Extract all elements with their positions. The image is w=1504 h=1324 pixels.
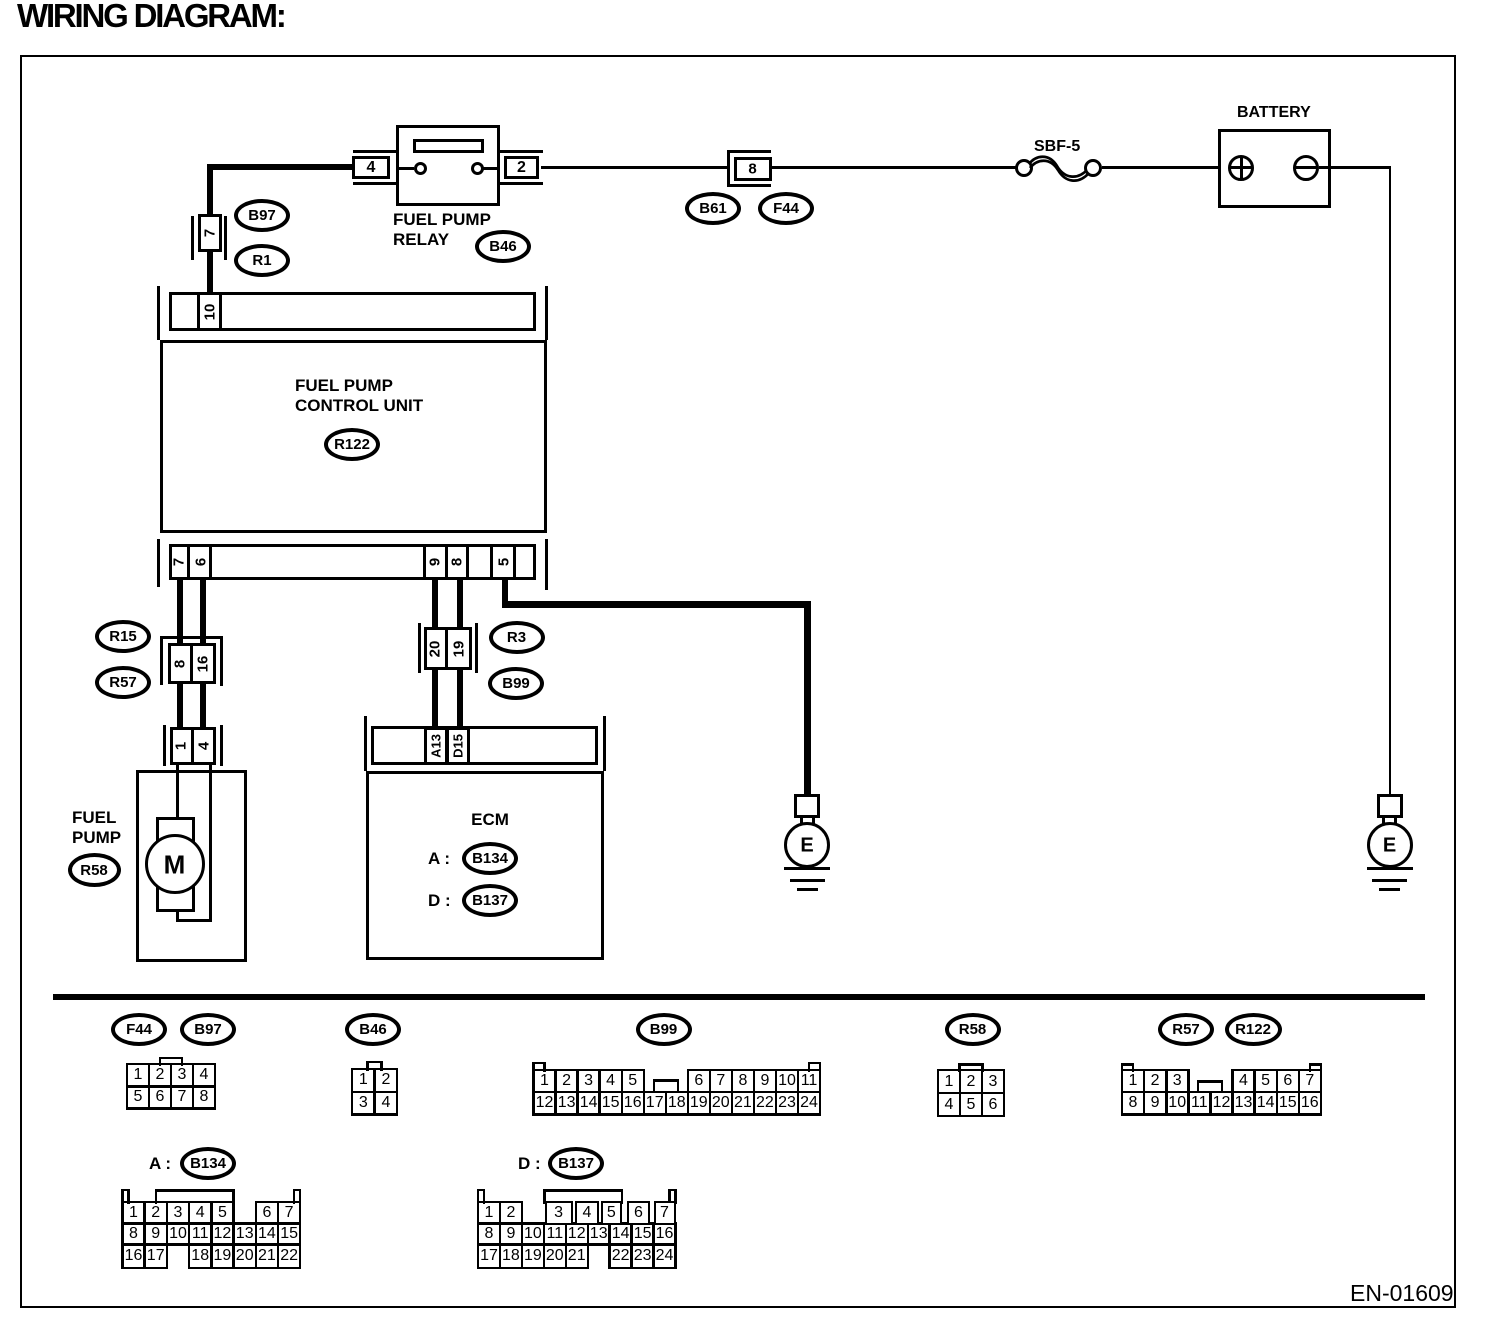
B134 pin 15 (280, 1225, 298, 1243)
connector view B99 left notch (532, 1062, 546, 1065)
B134 pin 4 (196, 1204, 205, 1222)
label D : (428, 891, 451, 911)
B137 pin 8 (485, 1225, 494, 1243)
B99 pin 19 (690, 1094, 708, 1112)
motor letter M (164, 849, 186, 880)
wire: R15/R57 pin 16 to fuel pump pin 4 (thick) (200, 684, 206, 728)
connector view R57/R122 left notch (1121, 1063, 1135, 1066)
ellipse B97 (bottom) (180, 1013, 236, 1046)
R58 pin 3 (989, 1073, 998, 1091)
ellipse B46 (bottom) (345, 1013, 401, 1046)
connector view R58 tab (958, 1063, 984, 1066)
B137 pin 3 box (545, 1201, 573, 1225)
pin label 7 (control unit) (171, 558, 188, 566)
B137 pin 2 (506, 1204, 515, 1222)
ellipse R122 (324, 428, 380, 461)
B46 pin 4 (381, 1094, 390, 1112)
B137 pin 14 (612, 1225, 630, 1243)
connector R15/R57 pin box 8/16 (168, 643, 216, 684)
ellipse B99 (bottom) (636, 1013, 692, 1046)
pin label 19 (R3/B99) (450, 640, 467, 657)
R57/R122 pin 2 (1151, 1072, 1160, 1090)
footer code EN-01609 (1350, 1280, 1454, 1307)
ground E bars (1367, 867, 1413, 870)
B134 pin 7 (285, 1204, 294, 1222)
fuel pump control unit bottom connector shell (157, 539, 160, 587)
R57/R122 pin 1 (1129, 1072, 1138, 1090)
B137 pin 23 (634, 1247, 652, 1265)
fuse SBF-5 right terminal circle (1084, 159, 1102, 177)
R57/R122 pin 13 (1235, 1094, 1253, 1112)
ellipse R58 (bottom) (945, 1013, 1001, 1046)
B99 pin 9 (760, 1072, 769, 1090)
ECM top connector row (371, 726, 598, 765)
R57/R122 pin 11 (1191, 1094, 1208, 1112)
B134 pin 13 (236, 1225, 254, 1243)
battery negative terminal (1293, 155, 1319, 181)
pin label 7 (201, 229, 218, 237)
bottom row cell dividers (187, 544, 190, 580)
B137 pin 4 box (575, 1201, 599, 1225)
ECM body (366, 771, 604, 960)
pin label 4 (367, 159, 376, 177)
fuel pump relay body B46 (396, 125, 500, 206)
pin label 5 (control unit) (495, 558, 512, 566)
fuel pump connector pin box 1/4 (170, 727, 216, 765)
ground E circle (1367, 822, 1413, 868)
B99 pin 8 (738, 1072, 747, 1090)
battery positive terminal (1228, 155, 1254, 181)
connector R15/R57 shell (160, 636, 223, 639)
fuse SBF-5 element (S-curve) (1020, 145, 1100, 195)
ellipse F44 (bottom) (111, 1013, 167, 1046)
fuel pump internal wire from pin 1 to motor brush (176, 765, 179, 819)
ellipse B137 (diagram) (462, 884, 518, 917)
B99 pin 4 (606, 1072, 615, 1090)
B134 pin 11 (192, 1225, 209, 1243)
relay connector pin 2 box (504, 156, 539, 179)
B137 pin 9 (506, 1225, 515, 1243)
ECM pin A13 box (424, 727, 448, 765)
B99 pin 16 (624, 1094, 642, 1112)
B99 pin 18 (668, 1094, 686, 1112)
connector view B99 right notch (808, 1062, 822, 1065)
B134 pin 17 (147, 1247, 165, 1265)
wire: control unit pin 9 to connector R3/B99 pin 20 (thick) (432, 577, 438, 630)
fuel pump brush rectangle (156, 817, 195, 912)
pin label D15 (451, 734, 466, 758)
B99 pin 22 (756, 1094, 774, 1112)
B99 pin 10 (778, 1072, 796, 1090)
B137 pin 18 (502, 1247, 520, 1265)
fuel pump control unit body R122 (160, 340, 547, 533)
fuel pump control unit bottom connector row (169, 544, 536, 580)
ellipse B61 (685, 192, 741, 225)
B99 pin 3 (584, 1072, 593, 1090)
title: WIRING DIAGRAM: (17, 0, 285, 35)
connector view B134 left notch (121, 1189, 130, 1192)
B137 pin 1 (485, 1204, 494, 1222)
relay contact circle left (414, 162, 427, 175)
label FUEL PUMP CONTROL UNIT (295, 376, 393, 396)
B137 pin 21 (568, 1247, 586, 1265)
B134 pin 10 (169, 1225, 187, 1243)
B134 pin 19 (213, 1247, 231, 1265)
ellipse F44 (758, 192, 814, 225)
ellipse R122 (bottom) (1225, 1013, 1282, 1046)
B134 pin 14 (258, 1225, 276, 1243)
ground E square terminal (794, 794, 820, 818)
B134 pin 9 (151, 1225, 160, 1243)
ellipse R15 (95, 620, 151, 653)
ellipse B134 (bottom) (180, 1147, 236, 1180)
F44/B97 pin 3 (178, 1066, 187, 1084)
connector pin 7 (R1/B97) shell (191, 216, 194, 260)
wire: fuse SBF-5 to battery positive terminal (thin) (1102, 166, 1228, 169)
B137 pin 5 (607, 1204, 616, 1222)
ellipse B99 (diagram) (488, 667, 544, 700)
R57/R122 pin 5 (1261, 1072, 1270, 1090)
B99 pin 23 (778, 1094, 796, 1112)
R58 pin 5 (967, 1096, 976, 1114)
B46 pin grid (351, 1068, 376, 1071)
F44/B97 pin 1 (134, 1066, 143, 1084)
B137 pin 6 (634, 1204, 643, 1222)
B134 pin grid (121, 1201, 146, 1204)
B134 pin 12 (213, 1225, 231, 1243)
F44/B97 pin 4 (200, 1066, 209, 1084)
connector view R57/R122 right notch (1309, 1063, 1323, 1066)
B134 pin 2 (151, 1204, 160, 1222)
fuel pump control unit top connector row (169, 292, 536, 331)
pin label 8 (748, 160, 756, 177)
B137 pin 5 box (601, 1201, 623, 1225)
B134 pin 18 (191, 1247, 209, 1265)
B99 pin 5 (628, 1072, 637, 1090)
B137 pin 20 (546, 1247, 564, 1265)
fuel pump control unit top connector shell (157, 286, 160, 340)
B134 pin 16 (125, 1247, 143, 1265)
connector view R57/R122 middle tab (1197, 1080, 1224, 1083)
pin 10 cell dividers (197, 292, 200, 331)
B137 pin 12 (568, 1225, 586, 1243)
ground E bars (784, 867, 830, 870)
R58 pin 4 (945, 1096, 954, 1114)
B134 pin 1 (129, 1204, 138, 1222)
B137 pin 19 (524, 1247, 542, 1265)
wire: control unit pin 7 to connector R15/R57 pin 8 (thick) (177, 577, 183, 644)
pin label 2 (517, 159, 526, 177)
B46 pin 1 (359, 1071, 368, 1089)
wire: relay pin 2 to in-line connector 8 (thin) (541, 166, 727, 169)
R57/R122 pin 10 (1168, 1094, 1186, 1112)
ellipse R57 (95, 666, 151, 699)
relay connector pin 2 shell (500, 150, 543, 153)
ground E letter (800, 834, 813, 857)
connector view B137 left notch (477, 1189, 486, 1192)
ECM top connector shell (364, 716, 367, 771)
pin label 8 (R15/R57) (171, 659, 188, 667)
R58 pin 1 (945, 1073, 954, 1091)
relay connector pin 4 shell (353, 150, 396, 153)
ground E circle (784, 822, 830, 868)
B134 pin 22 (280, 1247, 298, 1265)
B137 pin 24 (656, 1247, 674, 1265)
B99 pin 2 (562, 1072, 571, 1090)
ellipse R1 (234, 244, 290, 277)
F44/B97 pin 5 (134, 1088, 143, 1106)
B137 pin 15 (634, 1225, 652, 1243)
B99 pin 21 (734, 1094, 752, 1112)
fuel pump internal wire from pin 4 around motor (209, 765, 212, 922)
B99 pin 7 (716, 1072, 725, 1090)
R57/R122 pin 9 (1151, 1094, 1160, 1112)
R57/R122 pin 16 (1301, 1094, 1319, 1112)
wire: battery negative to ground E (thin) (1319, 166, 1390, 169)
R57/R122 pin 14 (1257, 1094, 1275, 1112)
B134 pin 21 (258, 1247, 276, 1265)
pin label A13 (429, 734, 444, 758)
pin label 16 (R15/R57) (195, 655, 212, 672)
fuel pump body R58 (136, 770, 247, 962)
connector view B137 right notch (668, 1189, 677, 1192)
wire: relay pin 4 to connector R1/B97 pin 7 (thick, horizontal+vertical) (207, 164, 353, 170)
relay connector pin 4 box (352, 156, 390, 179)
B137 pin 7 box (654, 1201, 676, 1225)
R57/R122 pin 15 (1279, 1094, 1297, 1112)
R57/R122 pin 12 (1213, 1094, 1231, 1112)
ground E letter (1383, 834, 1396, 857)
B137 pin 6 box (627, 1201, 650, 1225)
label FUEL PUMP (left) (72, 808, 116, 828)
wire: R15/R57 pin 8 to fuel pump pin 1 (thick) (177, 684, 183, 728)
B134 pin 8 (129, 1225, 138, 1243)
ellipse R57 (bottom) (1158, 1013, 1214, 1046)
pin label 4 (fuel pump) (195, 742, 212, 750)
B137 pin 4 (583, 1204, 592, 1222)
R57/R122 pin 7 (1305, 1072, 1314, 1090)
wire: control unit pin 5 to ground E (thick) (502, 577, 509, 604)
F44/B97 pin 2 (156, 1066, 165, 1084)
pin label 20 (R3/B99) (427, 640, 444, 657)
B99 pin 15 (602, 1094, 620, 1112)
label D : (518, 1154, 541, 1174)
relay coil rectangle (413, 139, 484, 153)
connector R3/B99 shell (418, 623, 421, 673)
connector view F44/B97 tab (159, 1057, 184, 1060)
ellipse B137 (bottom) (548, 1147, 604, 1180)
R57/R122 pin 3 (1173, 1072, 1182, 1090)
in-line connector B61/F44 shell (727, 150, 730, 187)
connector view B134 right notch (293, 1189, 302, 1192)
B99 pin 11 (801, 1072, 818, 1090)
B99 pin 24 (800, 1094, 818, 1112)
B46 pin 2 (381, 1071, 390, 1089)
ellipse B97 (234, 199, 290, 232)
wire: control unit pin 8 to connector R3/B99 pin 19 (thick) (457, 577, 463, 630)
R57/R122 pin 4 (1239, 1072, 1248, 1090)
relay contact line right (483, 167, 499, 170)
ellipse B134 (diagram) (462, 842, 518, 875)
pin label 6 (control unit) (192, 558, 209, 566)
B99 pin 14 (580, 1094, 598, 1112)
F44/B97 pin 6 (156, 1088, 165, 1106)
label BATTERY (1237, 104, 1311, 122)
pin label 9 (control unit) (427, 558, 444, 566)
R58 pin grid (937, 1069, 962, 1072)
connector pin 7 box (198, 214, 222, 252)
B137 pin 7 (660, 1204, 669, 1222)
F44/B97 pin grid (126, 1063, 151, 1066)
B99 pin 6 (694, 1072, 703, 1090)
B99 pin grid (532, 1069, 557, 1072)
B137 pin 16 (656, 1225, 674, 1243)
F44/B97 pin 8 (200, 1088, 209, 1106)
ellipse R58 (68, 853, 121, 887)
B46 pin 3 (359, 1094, 368, 1112)
connector view B99 middle tab (653, 1079, 680, 1082)
B99 pin 1 (540, 1072, 549, 1090)
B134 pin 5 (218, 1204, 227, 1222)
F44/B97 pin 7 (178, 1088, 187, 1106)
relay contact line left (397, 167, 414, 170)
in-line connector pin 8 box (734, 157, 772, 181)
B137 pin 10 (524, 1225, 542, 1243)
B134 pin 6 (262, 1204, 271, 1222)
pin label 10 (201, 303, 218, 320)
wire: control unit pin 6 to connector R15/R57 pin 16 (thick) (200, 577, 206, 644)
fuse SBF-5 left terminal circle (1015, 159, 1033, 177)
pin label 1 (fuel pump) (172, 742, 189, 750)
wire: R3/B99 pin 19 to ECM pin D15 (thick) (457, 669, 463, 728)
B134 pin 20 (236, 1247, 254, 1265)
ground E square terminal (1377, 794, 1403, 818)
label FUEL PUMP RELAY (393, 210, 491, 230)
pin label 8 (control unit) (448, 558, 465, 566)
ECM pin D15 box (446, 727, 470, 765)
R57/R122 pin 8 (1129, 1094, 1138, 1112)
B99 pin 20 (712, 1094, 730, 1112)
B137 pin grid (477, 1201, 501, 1204)
wire: R3/B99 pin 20 to ECM pin A13 (thick) (432, 669, 438, 728)
B99 pin 12 (536, 1094, 554, 1112)
label A : (149, 1154, 171, 1174)
B137 pin 13 (590, 1225, 608, 1243)
B137 pin 11 (546, 1225, 563, 1243)
relay contact circle right (471, 162, 484, 175)
label A : (428, 849, 450, 869)
motor M circle (145, 834, 205, 894)
wire: pin 7 to fuel pump control unit pin 10 (thick) (207, 250, 213, 294)
fuse SBF-5 label (1034, 138, 1080, 156)
B99 pin 17 (646, 1094, 664, 1112)
ellipse B46 (475, 230, 531, 263)
battery body (1218, 129, 1331, 208)
wire: connector 8 to fuse SBF-5 (thin) (772, 166, 1016, 169)
connector view B137 top tab (543, 1189, 623, 1192)
fuel pump connector R58 shell (163, 725, 166, 766)
R58 pin 6 (989, 1096, 998, 1114)
connector view B46 tab (366, 1061, 383, 1064)
label ECM (471, 810, 509, 830)
R57/R122 pin grid (1121, 1069, 1146, 1072)
B137 pin 3 (554, 1204, 563, 1222)
B137 pin 17 (480, 1247, 498, 1265)
B137 pin 22 (612, 1247, 630, 1265)
B134 pin 3 (174, 1204, 183, 1222)
ellipse R3 (489, 621, 545, 654)
R58 pin 2 (967, 1073, 976, 1091)
connector R3/B99 pin box 20/19 (424, 627, 472, 670)
connector view B134 top tab (155, 1189, 235, 1192)
R57/R122 pin 6 (1283, 1072, 1292, 1090)
B99 pin 13 (558, 1094, 576, 1112)
